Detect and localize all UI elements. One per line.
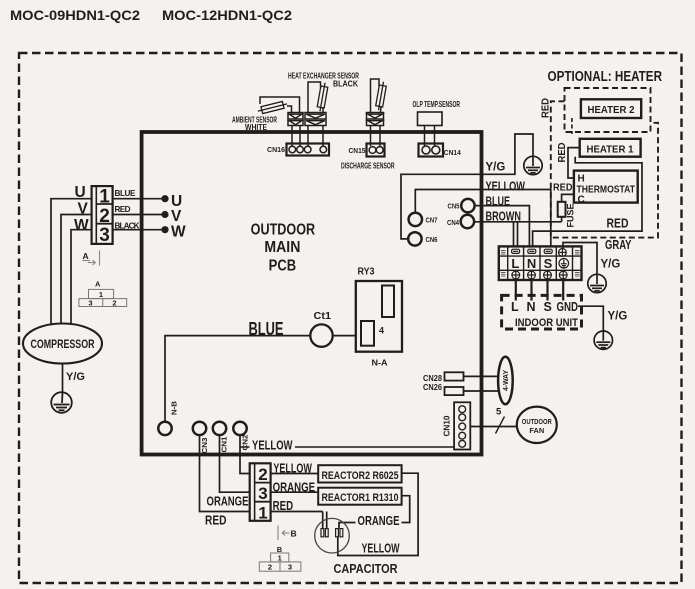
heat exchanger thermistor [317, 82, 329, 112]
svg-text:FUSE: FUSE [566, 204, 577, 228]
connector CN14 [419, 144, 444, 157]
connector CN16 [287, 144, 330, 156]
wire CN28 to 4-way [464, 375, 499, 377]
svg-text:YELLOW: YELLOW [273, 461, 312, 475]
terminal block 123 inner double edge [95, 186, 97, 244]
pin CN6 [408, 232, 421, 245]
pin CN5 [461, 199, 474, 212]
wire loop heater1 to terminal N [533, 157, 642, 247]
label YELLOW (white backed) [250, 439, 296, 452]
svg-text:RED: RED [205, 514, 227, 528]
top right screw [559, 249, 567, 257]
svg-text:3: 3 [99, 225, 110, 246]
svg-text:S: S [544, 256, 553, 271]
svg-text:OPTIONAL: HEATER: OPTIONAL: HEATER [548, 69, 663, 85]
pin CN4 [461, 215, 474, 228]
svg-text:OUTDOOR: OUTDOOR [251, 221, 316, 238]
svg-text:CN10: CN10 [442, 415, 452, 436]
svg-text:RY3: RY3 [358, 267, 375, 278]
pin CN2 [233, 422, 246, 435]
block 231 dividers [255, 483, 271, 502]
connector CN15 [367, 144, 385, 157]
svg-text:REACTOR2 R6025: REACTOR2 R6025 [322, 470, 399, 482]
svg-text:2: 2 [258, 465, 267, 484]
svg-text:Y/G: Y/G [66, 371, 85, 383]
relay RY3 [356, 281, 402, 352]
svg-text:V: V [171, 208, 182, 225]
capacitor terminal left [321, 529, 328, 537]
wire terminal 1 to capacitor [271, 512, 327, 529]
pin CN7 [409, 213, 422, 226]
pin dot U [161, 195, 168, 202]
wire CN10 to outdoor fan [470, 426, 517, 428]
wire Y/G from CN6 [401, 134, 533, 239]
svg-text:1: 1 [258, 503, 267, 522]
current transformer Ct1 [310, 324, 332, 346]
compressor [23, 324, 102, 364]
reactor R6025 [318, 465, 401, 482]
discharge lead to plug [380, 106, 383, 113]
section marker B [278, 526, 290, 541]
wires terminal block to indoor unit [516, 280, 563, 301]
svg-text:GND: GND [557, 300, 579, 314]
svg-text:4-WAY: 4-WAY [501, 370, 510, 391]
svg-text:A: A [95, 280, 101, 289]
OLP temp sensor box [418, 112, 443, 126]
plug block ambient (X symbols) [288, 113, 303, 126]
svg-text:1: 1 [99, 187, 110, 208]
wire YELLOW from CN7 to terminal S [415, 190, 551, 247]
ambient sensor thermistor [257, 100, 288, 114]
svg-text:BLUE: BLUE [486, 195, 511, 209]
wire V to pin [113, 214, 165, 216]
ground top right [524, 156, 542, 174]
svg-text:RED: RED [115, 205, 131, 214]
svg-text:N-B: N-B [170, 401, 179, 415]
wire terminal 2 to reactor2 [271, 473, 319, 475]
ground compressor [51, 392, 72, 413]
pin dot W [161, 226, 168, 233]
ground indoor [594, 331, 612, 349]
svg-text:2: 2 [268, 563, 272, 572]
svg-text:BLUE: BLUE [249, 319, 284, 339]
dashed optional heater enclosure [551, 101, 658, 237]
svg-text:CN6: CN6 [426, 235, 438, 244]
svg-text:ORANGE: ORANGE [358, 514, 400, 528]
svg-text:COMPRESSOR: COMPRESSOR [31, 337, 95, 351]
discharge sensor loop wire [371, 79, 380, 113]
connector CN26 [445, 387, 464, 395]
svg-text:DISCHARGE SENSOR: DISCHARGE SENSOR [341, 161, 395, 171]
wire W to compressor [71, 230, 92, 325]
svg-text:MOC-09HDN1-QC2: MOC-09HDN1-QC2 [10, 7, 140, 23]
svg-text:MAIN: MAIN [264, 239, 300, 256]
svg-text:L: L [511, 300, 519, 314]
RY3 inner coil [361, 321, 374, 346]
svg-text:RED: RED [607, 217, 629, 231]
pin dot V [161, 211, 168, 218]
svg-text:S: S [544, 300, 552, 314]
wire GRAY screw to ground [563, 243, 597, 275]
svg-text:RED: RED [273, 499, 294, 513]
wire labels BLUE RED BLACK [115, 189, 140, 231]
wire U to pin [113, 198, 165, 200]
fuse [558, 202, 566, 217]
svg-text:CN4: CN4 [447, 218, 460, 227]
terminal letters L N S [511, 256, 552, 271]
4-way valve [498, 357, 513, 404]
indoor unit dashed box [502, 295, 582, 329]
bottom row screws [512, 271, 567, 279]
terminal block column lines [508, 246, 573, 280]
svg-text:C: C [578, 194, 585, 205]
terminal block 123 [92, 186, 113, 244]
dashed box around HEATER 2 [565, 88, 651, 132]
labels L N S GND [511, 300, 578, 314]
svg-text:CN5: CN5 [448, 201, 460, 210]
top row terminal pads [512, 249, 553, 253]
ambient sensor loop wire [260, 97, 300, 113]
wire CN2 to terminal 2 [240, 435, 250, 473]
wire BLUE from N-B pin to Ct1 [165, 336, 310, 422]
svg-text:1: 1 [278, 554, 282, 563]
svg-text:WHITE: WHITE [245, 122, 267, 132]
heat exchanger lead to plug [322, 107, 324, 113]
svg-text:RED: RED [553, 183, 573, 194]
svg-text:CN14: CN14 [444, 148, 462, 157]
wire count slash 5 [496, 417, 505, 434]
outdoor fan [517, 407, 557, 443]
heat exchanger sensor loop wire [308, 82, 321, 113]
detail B assembly [259, 553, 301, 571]
discharge sensor thermistor [375, 81, 387, 111]
wires plugs to CN16 [292, 126, 323, 147]
svg-text:2: 2 [112, 299, 116, 308]
svg-text:PCB: PCB [269, 258, 297, 275]
svg-text:3: 3 [288, 563, 292, 572]
svg-text:GRAY: GRAY [605, 238, 632, 252]
label ORANGE capacitor [356, 514, 402, 527]
svg-text:B: B [277, 545, 283, 554]
wire fuse to BROWN [561, 217, 563, 222]
svg-text:MOC-12HDN1-QC2: MOC-12HDN1-QC2 [162, 7, 292, 23]
wire BLUE from CN5 to terminal N [475, 206, 530, 247]
svg-text:Y/G: Y/G [601, 258, 621, 270]
svg-text:5: 5 [496, 407, 502, 418]
terminal digits 1 2 3 [99, 187, 110, 246]
terminal block 123 cell dividers [96, 203, 112, 205]
svg-text:Ct1: Ct1 [314, 311, 332, 322]
wire terminal 3 to reactor1 [271, 491, 319, 493]
capacitor terminal right [336, 529, 343, 537]
plug block heat exchanger (X symbols) [305, 113, 326, 126]
wire CN26 to 4-way [464, 390, 499, 392]
svg-text:BLUE: BLUE [115, 189, 137, 198]
svg-text:OUTDOOR: OUTDOOR [522, 417, 553, 426]
svg-text:Y/G: Y/G [486, 161, 506, 173]
svg-text:BLACK: BLACK [333, 79, 358, 89]
pin labels U V W [171, 193, 186, 241]
wire U to compressor [51, 199, 92, 326]
wires plug to CN15 [371, 126, 381, 147]
terminal earth symbol circle [559, 259, 569, 269]
wire yellow CN2 branch to CN10 [240, 446, 454, 448]
section marker A [83, 251, 100, 266]
wire CN1 to terminal 3 [220, 435, 250, 492]
reactor R1310 [318, 488, 401, 505]
svg-text:W: W [171, 224, 186, 241]
wire heater1 to thermostat H [568, 148, 580, 178]
svg-text:HEATER 2: HEATER 2 [588, 105, 635, 116]
svg-text:CN15: CN15 [349, 146, 367, 155]
ground gray [588, 274, 606, 292]
pin CN1 [213, 422, 226, 435]
svg-text:A: A [83, 251, 89, 261]
svg-text:L: L [511, 256, 519, 271]
outdoor main PCB box [142, 132, 482, 455]
end cell marks [501, 251, 580, 277]
thermostat box [574, 171, 638, 203]
wire BROWN from CN4 to fuse and terminal L [474, 222, 561, 247]
svg-text:CN1: CN1 [220, 437, 229, 453]
pin N-B [158, 422, 171, 435]
svg-text:BROWN: BROWN [486, 209, 522, 223]
svg-text:OLP TEMP.SENSOR: OLP TEMP.SENSOR [413, 99, 461, 109]
svg-text:W: W [74, 217, 89, 234]
heater H2 [581, 99, 641, 118]
svg-text:CN26: CN26 [423, 382, 442, 392]
wire CN3 to terminal 1 [200, 435, 250, 511]
svg-text:REACTOR1 R1310: REACTOR1 R1310 [322, 492, 399, 504]
wires OLP to CN14 [425, 126, 435, 147]
svg-text:3: 3 [258, 484, 267, 503]
wire compressor to ground [62, 364, 64, 393]
svg-text:ORANGE: ORANGE [273, 480, 316, 494]
svg-text:CN16: CN16 [267, 145, 285, 154]
connector CN28 [445, 372, 464, 380]
wire W to pin [113, 229, 165, 231]
plug block discharge (X symbols) [367, 113, 384, 126]
svg-text:CAPACITOR: CAPACITOR [334, 561, 399, 576]
terminal block row lines [499, 256, 582, 270]
connector CN10 [454, 402, 470, 449]
wire V to compressor [61, 215, 92, 325]
svg-text:CN3: CN3 [200, 438, 209, 454]
wire Ct1 to RY3 [333, 335, 356, 337]
ambient sensor lead to plug [287, 106, 292, 113]
svg-text:H: H [578, 174, 585, 185]
dashed link heater2 [571, 118, 573, 134]
detail A assembly [79, 289, 127, 306]
svg-text:RED: RED [557, 143, 568, 163]
terminal block outer [499, 246, 582, 280]
wire thermostat C to fuse [562, 194, 574, 201]
svg-text:YELLOW: YELLOW [362, 542, 400, 556]
digits 2 3 1 [258, 465, 267, 522]
svg-text:INDOOR UNIT: INDOOR UNIT [515, 317, 578, 329]
svg-text:HEATER 1: HEATER 1 [587, 144, 634, 155]
wire GND to ground [578, 306, 603, 331]
svg-text:N-A: N-A [372, 358, 388, 368]
svg-text:FAN: FAN [529, 426, 544, 435]
svg-text:N: N [527, 256, 536, 271]
svg-text:B: B [291, 529, 297, 539]
svg-text:2: 2 [99, 206, 110, 227]
RY3 inner contact [382, 286, 394, 318]
svg-text:Y/G: Y/G [608, 311, 628, 323]
capacitor body [315, 518, 350, 553]
heater H1 [580, 139, 641, 157]
wire reactor1 to capacitor (orange) [339, 496, 410, 529]
label OUTDOOR MAIN PCB [251, 221, 316, 274]
svg-text:YELLOW: YELLOW [252, 439, 293, 453]
svg-text:1: 1 [99, 290, 103, 299]
terminal block 231 [250, 463, 271, 521]
svg-text:THERMOSTAT: THERMOSTAT [577, 185, 636, 196]
svg-text:YELLOW: YELLOW [486, 180, 526, 194]
pin CN3 [193, 422, 206, 435]
svg-text:4: 4 [379, 326, 384, 336]
svg-text:N: N [527, 300, 536, 314]
block 231 inner edge [254, 463, 256, 521]
svg-text:ORANGE: ORANGE [207, 494, 249, 508]
wire reactor2 to capacitor (yellow) [338, 473, 418, 555]
svg-text:CN7: CN7 [426, 215, 438, 224]
labels U V W left of block [74, 184, 89, 234]
svg-text:3: 3 [88, 299, 92, 308]
svg-text:CN2: CN2 [241, 435, 250, 451]
